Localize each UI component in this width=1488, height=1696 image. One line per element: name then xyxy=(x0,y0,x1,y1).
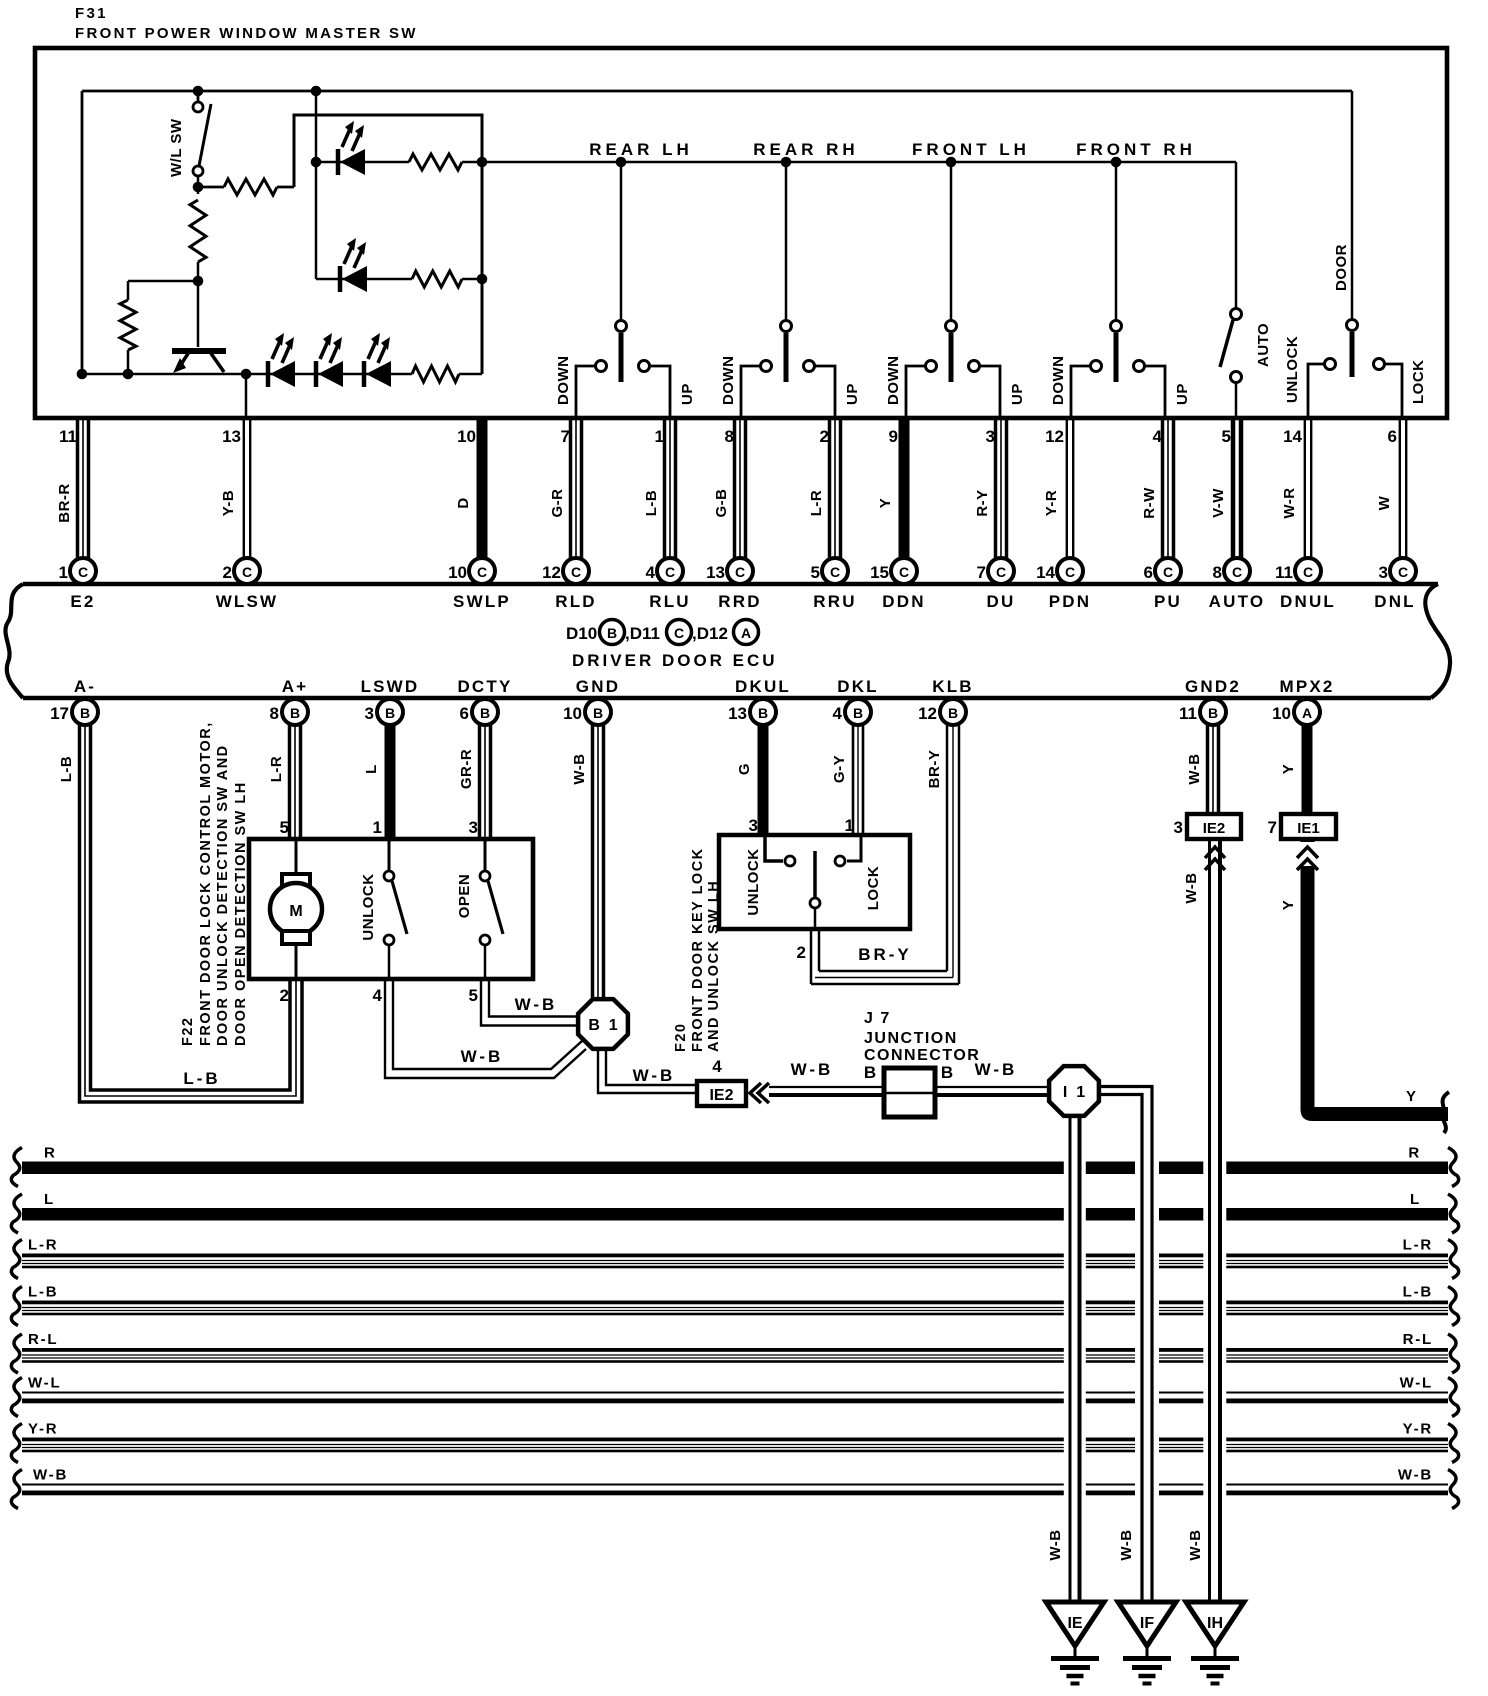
svg-text:DOOR: DOOR xyxy=(1333,244,1350,291)
svg-text:B: B xyxy=(1208,705,1218,721)
svg-text:C: C xyxy=(1303,564,1313,580)
svg-text:10: 10 xyxy=(563,704,582,723)
svg-text:UP: UP xyxy=(679,383,696,405)
svg-text:9: 9 xyxy=(889,427,898,446)
svg-text:BR-R: BR-R xyxy=(56,483,73,523)
svg-text:IE2: IE2 xyxy=(709,1087,733,1104)
svg-text:J 7: J 7 xyxy=(864,1010,891,1027)
svg-text:A: A xyxy=(741,625,751,641)
svg-text:17: 17 xyxy=(50,704,69,723)
svg-text:C: C xyxy=(899,564,909,580)
svg-text:L: L xyxy=(363,764,380,774)
svg-text:B 1: B 1 xyxy=(588,1017,617,1034)
svg-text:6: 6 xyxy=(1144,563,1153,582)
svg-text:W: W xyxy=(1376,495,1393,510)
svg-text:B: B xyxy=(607,625,617,641)
svg-text:RLD: RLD xyxy=(555,592,597,611)
svg-text:W-B: W-B xyxy=(461,1047,504,1066)
svg-text:DCTY: DCTY xyxy=(457,677,512,696)
svg-text:13: 13 xyxy=(222,427,241,446)
svg-text:11: 11 xyxy=(59,427,77,446)
svg-text:DOWN: DOWN xyxy=(885,356,902,406)
svg-text:LOCK: LOCK xyxy=(865,866,882,911)
svg-text:C: C xyxy=(735,564,745,580)
svg-text:LSWD: LSWD xyxy=(361,677,420,696)
svg-text:,D12: ,D12 xyxy=(692,624,728,643)
svg-text:5: 5 xyxy=(469,986,478,1005)
svg-text:F20: F20 xyxy=(673,1023,689,1053)
svg-text:DOOR OPEN DETECTION SW LH: DOOR OPEN DETECTION SW LH xyxy=(233,781,249,1046)
svg-text:C: C xyxy=(242,564,252,580)
svg-text:2: 2 xyxy=(820,427,829,446)
svg-text:IF: IF xyxy=(1140,1615,1154,1632)
svg-text:A+: A+ xyxy=(282,677,309,696)
svg-text:FRONT POWER WINDOW MASTER SW: FRONT POWER WINDOW MASTER SW xyxy=(75,25,418,42)
svg-text:R-W: R-W xyxy=(1141,487,1158,519)
svg-text:REAR RH: REAR RH xyxy=(753,140,858,159)
svg-text:JUNCTION: JUNCTION xyxy=(864,1030,958,1047)
svg-text:Y-R: Y-R xyxy=(28,1421,58,1438)
svg-text:DRIVER DOOR ECU: DRIVER DOOR ECU xyxy=(572,651,778,670)
svg-text:L: L xyxy=(44,1191,55,1208)
svg-text:BR-Y: BR-Y xyxy=(858,945,912,964)
svg-text:W-B: W-B xyxy=(1118,1529,1135,1560)
svg-text:10: 10 xyxy=(1272,704,1291,723)
svg-text:5: 5 xyxy=(280,818,289,837)
svg-text:E2: E2 xyxy=(70,592,95,611)
svg-text:L-B: L-B xyxy=(58,756,75,783)
svg-text:V-W: V-W xyxy=(1210,488,1227,518)
svg-text:MPX2: MPX2 xyxy=(1279,677,1334,696)
svg-text:3: 3 xyxy=(1174,818,1183,837)
svg-text:UNLOCK: UNLOCK xyxy=(1284,336,1301,403)
svg-text:G-R: G-R xyxy=(549,489,566,518)
svg-text:8: 8 xyxy=(270,704,279,723)
svg-text:GND: GND xyxy=(576,677,620,696)
svg-text:LOCK: LOCK xyxy=(1410,360,1427,405)
svg-text:C: C xyxy=(665,564,675,580)
svg-text:IE: IE xyxy=(1067,1615,1082,1632)
svg-text:D10: D10 xyxy=(566,624,597,643)
svg-text:FRONT RH: FRONT RH xyxy=(1076,140,1196,159)
svg-text:C: C xyxy=(830,564,840,580)
svg-text:3: 3 xyxy=(749,816,758,835)
svg-text:C: C xyxy=(477,564,487,580)
svg-text:L-B: L-B xyxy=(28,1284,58,1301)
svg-text:SWLP: SWLP xyxy=(453,592,511,611)
svg-text:RLU: RLU xyxy=(649,592,691,611)
svg-text:L-B: L-B xyxy=(183,1069,220,1088)
svg-text:C: C xyxy=(571,564,581,580)
svg-text:F22: F22 xyxy=(180,1017,196,1047)
svg-text:W-B: W-B xyxy=(33,1467,68,1484)
svg-text:6: 6 xyxy=(1388,427,1397,446)
svg-text:OPEN: OPEN xyxy=(456,874,473,919)
svg-text:IE2: IE2 xyxy=(1203,820,1226,837)
svg-text:I 1: I 1 xyxy=(1063,1084,1085,1101)
svg-text:C: C xyxy=(1163,564,1173,580)
svg-text:3: 3 xyxy=(365,704,374,723)
svg-text:GR-R: GR-R xyxy=(458,749,475,789)
svg-text:DU: DU xyxy=(987,592,1016,611)
svg-text:RRD: RRD xyxy=(718,592,761,611)
svg-text:B: B xyxy=(941,1063,953,1082)
svg-text:C: C xyxy=(674,625,684,641)
svg-text:W-L: W-L xyxy=(1400,1375,1433,1392)
svg-text:C: C xyxy=(1398,564,1408,580)
svg-text:13: 13 xyxy=(728,704,747,723)
svg-text:Y-B: Y-B xyxy=(220,490,237,517)
svg-text:IH: IH xyxy=(1207,1615,1223,1632)
svg-text:AUTO: AUTO xyxy=(1209,592,1266,611)
svg-text:W-B: W-B xyxy=(791,1060,834,1079)
svg-text:W-B: W-B xyxy=(1187,1529,1204,1560)
svg-text:UP: UP xyxy=(1009,383,1026,405)
svg-text:L: L xyxy=(1410,1191,1421,1208)
svg-text:GND2: GND2 xyxy=(1185,677,1241,696)
svg-text:B: B xyxy=(853,705,863,721)
svg-text:4: 4 xyxy=(833,704,843,723)
svg-text:W-B: W-B xyxy=(975,1060,1018,1079)
svg-text:UNLOCK: UNLOCK xyxy=(745,848,762,915)
svg-text:14: 14 xyxy=(1283,427,1302,446)
svg-text:R-L: R-L xyxy=(1403,1331,1433,1348)
svg-text:D: D xyxy=(455,497,472,508)
svg-text:B: B xyxy=(385,705,395,721)
svg-text:W-L: W-L xyxy=(28,1375,61,1392)
svg-text:1: 1 xyxy=(655,427,664,446)
svg-text:DOWN: DOWN xyxy=(720,356,737,406)
svg-text:FRONT LH: FRONT LH xyxy=(912,140,1030,159)
svg-text:4: 4 xyxy=(373,986,383,1005)
svg-text:L-R: L-R xyxy=(808,490,825,517)
svg-text:R-Y: R-Y xyxy=(974,489,991,516)
svg-text:1: 1 xyxy=(845,816,854,835)
svg-text:UNLOCK: UNLOCK xyxy=(360,873,377,940)
svg-text:12: 12 xyxy=(1045,427,1064,446)
svg-text:7: 7 xyxy=(561,427,570,446)
svg-text:10: 10 xyxy=(457,427,476,446)
svg-text:5: 5 xyxy=(811,563,820,582)
svg-text:R: R xyxy=(44,1145,57,1162)
svg-text:DOOR UNLOCK DETECTION SW AND: DOOR UNLOCK DETECTION SW AND xyxy=(215,744,231,1046)
svg-text:1: 1 xyxy=(373,818,382,837)
svg-text:B: B xyxy=(80,705,90,721)
svg-text:W-B: W-B xyxy=(571,753,588,784)
svg-text:G-B: G-B xyxy=(713,489,730,518)
svg-text:11: 11 xyxy=(1275,563,1293,582)
svg-text:AND UNLOCK SW LH: AND UNLOCK SW LH xyxy=(706,880,722,1052)
svg-text:15: 15 xyxy=(870,563,889,582)
svg-text:W-R: W-R xyxy=(1281,487,1298,518)
svg-text:2: 2 xyxy=(280,986,289,1005)
svg-text:6: 6 xyxy=(460,704,469,723)
svg-text:,D11: ,D11 xyxy=(625,624,660,643)
svg-text:C: C xyxy=(78,564,88,580)
svg-text:4: 4 xyxy=(646,563,656,582)
svg-text:L-B: L-B xyxy=(1403,1284,1433,1301)
svg-text:B: B xyxy=(480,705,490,721)
svg-text:7: 7 xyxy=(1268,818,1277,837)
svg-text:5: 5 xyxy=(1222,427,1231,446)
svg-text:B: B xyxy=(758,705,768,721)
svg-text:2: 2 xyxy=(797,943,806,962)
svg-text:8: 8 xyxy=(725,427,734,446)
svg-text:REAR LH: REAR LH xyxy=(589,140,693,159)
svg-text:Y: Y xyxy=(877,498,894,509)
svg-text:FRONT DOOR LOCK CONTROL MOTOR,: FRONT DOOR LOCK CONTROL MOTOR, xyxy=(198,721,214,1046)
svg-text:L-R: L-R xyxy=(268,756,285,783)
svg-text:DNUL: DNUL xyxy=(1280,592,1336,611)
svg-text:AUTO: AUTO xyxy=(1255,323,1272,367)
svg-text:8: 8 xyxy=(1213,563,1222,582)
svg-text:W-B: W-B xyxy=(633,1066,676,1085)
svg-text:W-B: W-B xyxy=(1186,753,1203,784)
svg-text:PDN: PDN xyxy=(1049,592,1092,611)
svg-text:B: B xyxy=(948,705,958,721)
svg-text:R-L: R-L xyxy=(28,1331,58,1348)
svg-text:W-B: W-B xyxy=(1398,1467,1433,1484)
svg-text:DKUL: DKUL xyxy=(735,677,791,696)
svg-text:WLSW: WLSW xyxy=(216,592,279,611)
svg-text:2: 2 xyxy=(223,563,232,582)
svg-text:14: 14 xyxy=(1036,563,1055,582)
svg-text:DOWN: DOWN xyxy=(1050,356,1067,406)
svg-text:W/L SW: W/L SW xyxy=(168,118,185,177)
svg-text:G-Y: G-Y xyxy=(831,755,848,783)
svg-text:10: 10 xyxy=(448,563,467,582)
svg-text:4: 4 xyxy=(712,1057,722,1076)
svg-text:Y-R: Y-R xyxy=(1403,1421,1433,1438)
svg-text:RRU: RRU xyxy=(813,592,856,611)
svg-text:3: 3 xyxy=(469,818,478,837)
svg-text:G: G xyxy=(736,763,753,775)
svg-text:B: B xyxy=(593,705,603,721)
svg-text:B: B xyxy=(864,1063,876,1082)
svg-text:11: 11 xyxy=(1179,704,1197,723)
svg-text:A: A xyxy=(1302,705,1312,721)
svg-text:Y: Y xyxy=(1280,764,1297,775)
svg-text:UP: UP xyxy=(1174,383,1191,405)
svg-text:W-B: W-B xyxy=(515,995,558,1014)
svg-text:L-B: L-B xyxy=(643,490,660,517)
svg-text:7: 7 xyxy=(977,563,986,582)
svg-text:13: 13 xyxy=(706,563,725,582)
svg-text:1: 1 xyxy=(59,563,68,582)
svg-text:Y: Y xyxy=(1280,900,1297,911)
svg-text:C: C xyxy=(996,564,1006,580)
svg-text:3: 3 xyxy=(1379,563,1388,582)
svg-text:CONNECTOR: CONNECTOR xyxy=(864,1047,980,1064)
svg-text:4: 4 xyxy=(1153,427,1163,446)
svg-text:M: M xyxy=(289,903,302,920)
svg-text:IE1: IE1 xyxy=(1297,820,1320,837)
svg-text:C: C xyxy=(1065,564,1075,580)
svg-text:KLB: KLB xyxy=(932,677,974,696)
svg-text:A-: A- xyxy=(74,677,96,696)
svg-text:DNL: DNL xyxy=(1374,592,1416,611)
svg-text:DOWN: DOWN xyxy=(555,356,572,406)
svg-text:L-R: L-R xyxy=(28,1237,58,1254)
svg-text:BR-Y: BR-Y xyxy=(926,750,943,789)
svg-text:12: 12 xyxy=(918,704,937,723)
svg-text:UP: UP xyxy=(844,383,861,405)
svg-text:Y: Y xyxy=(1406,1088,1416,1105)
svg-text:W-B: W-B xyxy=(1183,872,1200,903)
svg-text:L-R: L-R xyxy=(1403,1237,1433,1254)
svg-text:DKL: DKL xyxy=(837,677,879,696)
svg-text:PU: PU xyxy=(1154,592,1182,611)
svg-text:FRONT DOOR KEY LOCK: FRONT DOOR KEY LOCK xyxy=(690,847,706,1052)
svg-text:W-B: W-B xyxy=(1047,1529,1064,1560)
svg-text:Y-R: Y-R xyxy=(1043,490,1060,517)
svg-text:DDN: DDN xyxy=(882,592,925,611)
svg-text:B: B xyxy=(290,705,300,721)
svg-text:3: 3 xyxy=(986,427,995,446)
svg-text:F31: F31 xyxy=(75,5,108,22)
svg-text:R: R xyxy=(1408,1145,1421,1162)
svg-text:12: 12 xyxy=(542,563,561,582)
svg-text:C: C xyxy=(1232,564,1242,580)
